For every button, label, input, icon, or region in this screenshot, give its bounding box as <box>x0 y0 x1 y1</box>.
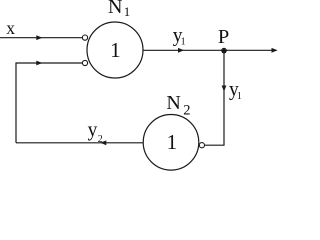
arrowhead on x input <box>36 35 42 40</box>
svg-text:1: 1 <box>167 130 178 154</box>
arrowhead on feedback input <box>36 61 42 66</box>
node P junction dot <box>221 48 227 54</box>
svg-text:2: 2 <box>98 134 103 145</box>
svg-text:1: 1 <box>237 91 242 102</box>
neuron N2 circle <box>143 115 199 171</box>
wire: feedback into N1 lower input <box>16 63 82 143</box>
arrowhead on y2 line (pointing left) <box>100 140 106 145</box>
svg-text:N: N <box>108 0 122 18</box>
svg-text:y: y <box>88 120 98 141</box>
neuron N1 circle <box>87 22 143 78</box>
arrowhead at right edge <box>272 48 278 53</box>
svg-text:1: 1 <box>110 38 121 62</box>
wire: output y1 from N1 to right edge <box>144 49 277 51</box>
svg-text:x: x <box>6 18 15 38</box>
arrowhead on y1 output line <box>178 48 184 53</box>
wire: y2 line from N2 to left <box>16 142 143 144</box>
svg-text:P: P <box>218 26 229 48</box>
svg-text:N: N <box>166 92 180 114</box>
svg-text:1: 1 <box>124 4 131 19</box>
arrowhead pointing down on vertical wire <box>222 86 227 92</box>
wire: input x line <box>0 37 82 39</box>
svg-text:1: 1 <box>181 37 186 48</box>
wire: vertical from P down to N2 right input <box>205 50 224 145</box>
inhibitory input circle top of N1 <box>82 35 87 40</box>
inhibitory input circle bottom of N1 <box>82 60 87 65</box>
svg-text:2: 2 <box>183 103 190 119</box>
inhibitory input circle right of N2 <box>199 143 204 148</box>
